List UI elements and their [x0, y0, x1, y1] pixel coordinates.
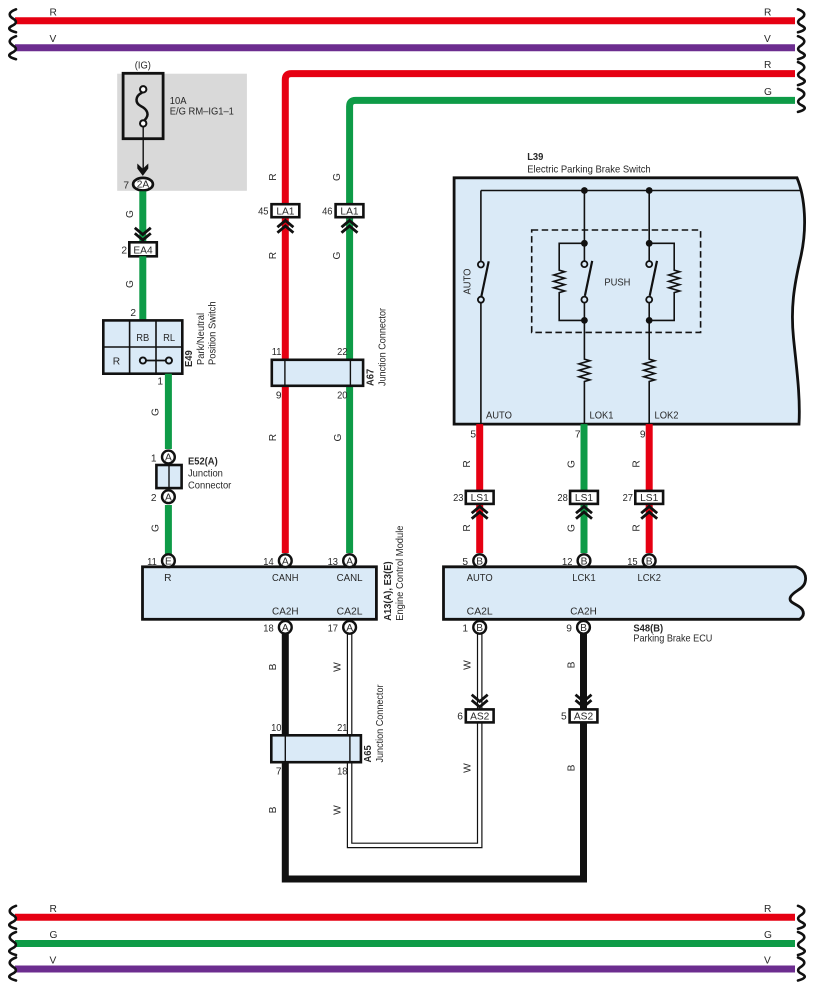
wire G feed to CANL (horizontal then down) — [350, 100, 795, 553]
svg-text:2: 2 — [130, 308, 136, 319]
svg-text:G: G — [333, 433, 344, 441]
arrow chevrons AS2 pin5 — [576, 695, 592, 707]
svg-text:CA2L: CA2L — [337, 607, 363, 618]
wire fuse output — [142, 127, 144, 171]
switch LOK2 contact — [646, 261, 652, 267]
svg-text:2A: 2A — [137, 180, 150, 191]
svg-text:PUSH: PUSH — [604, 278, 630, 289]
svg-text:A: A — [165, 492, 172, 503]
bus end squiggle top-right R — [798, 9, 805, 32]
wire bus R (bottom) — [15, 914, 795, 921]
svg-text:5: 5 — [561, 712, 567, 723]
svg-text:A67: A67 — [366, 369, 377, 386]
svg-text:10A: 10A — [170, 96, 187, 107]
wire R AUTO from L39 to ECU — [476, 424, 483, 553]
svg-text:7: 7 — [276, 767, 282, 778]
svg-text:6: 6 — [457, 712, 463, 723]
svg-text:B: B — [566, 661, 577, 668]
bus end squiggle top-left V — [9, 36, 16, 59]
svg-text:14: 14 — [263, 557, 274, 568]
wire bus R (top) — [15, 17, 795, 24]
svg-text:G: G — [764, 87, 772, 98]
fuse block background (IG relay block grey box) — [117, 74, 247, 191]
svg-text:G: G — [151, 524, 162, 532]
svg-text:A: A — [282, 623, 289, 634]
svg-text:RB: RB — [136, 333, 149, 344]
wire W CA2L loop (ECM 17 to ECU 1) black outline — [350, 630, 480, 845]
wire B CA2H loop (ECM 18 to ECU 9) — [285, 630, 583, 879]
wire R feed to CANH (horizontal then down) — [285, 74, 795, 553]
svg-text:Electric Parking Brake Switch: Electric Parking Brake Switch — [527, 165, 651, 176]
svg-text:CA2L: CA2L — [467, 607, 493, 618]
svg-text:9: 9 — [640, 430, 646, 441]
wire W CA2L loop white core — [350, 629, 480, 845]
svg-text:15: 15 — [627, 557, 638, 568]
svg-text:9: 9 — [276, 391, 282, 402]
E49 internal contacts — [146, 360, 166, 362]
svg-text:A65: A65 — [363, 745, 374, 762]
bus end squiggle top-left R — [9, 9, 16, 32]
svg-text:CANL: CANL — [337, 573, 363, 584]
svg-text:11: 11 — [272, 347, 282, 358]
dashed PUSH switch group box — [532, 230, 701, 332]
ECU A13(A) E3(E) Engine Control Module box — [143, 567, 377, 620]
svg-text:B: B — [476, 556, 483, 567]
svg-text:46: 46 — [322, 207, 333, 218]
svg-text:CA2H: CA2H — [570, 607, 597, 618]
bus end squiggle right G feed — [798, 89, 805, 112]
svg-text:R: R — [632, 460, 643, 467]
svg-text:R: R — [268, 252, 279, 259]
svg-text:LOK1: LOK1 — [590, 411, 614, 422]
svg-text:B: B — [268, 806, 279, 813]
svg-text:5: 5 — [470, 430, 476, 441]
svg-text:G: G — [332, 251, 343, 259]
wire AUTO branch — [480, 191, 482, 262]
svg-text:A13(A), E3(E): A13(A), E3(E) — [383, 561, 394, 620]
arrow into connector 2A — [137, 164, 148, 176]
svg-text:R: R — [764, 60, 771, 71]
svg-text:AUTO: AUTO — [462, 268, 473, 294]
svg-text:LA1: LA1 — [276, 206, 294, 217]
svg-text:AUTO: AUTO — [486, 411, 512, 422]
wire bus G (bottom) — [15, 940, 795, 947]
svg-text:LS1: LS1 — [575, 493, 593, 504]
svg-text:A: A — [282, 556, 289, 567]
svg-text:28: 28 — [557, 493, 568, 504]
svg-text:Junction Connector: Junction Connector — [375, 684, 386, 763]
arrow chevrons into EA4 — [135, 228, 151, 240]
svg-text:E/G RM–IG1–1: E/G RM–IG1–1 — [170, 107, 234, 118]
node dot top rail LOK2 — [646, 187, 653, 194]
svg-text:LOK2: LOK2 — [655, 411, 679, 422]
bus end squiggle bottom-right G — [798, 932, 805, 955]
wire internal top rail — [481, 190, 801, 192]
svg-text:R: R — [113, 357, 120, 368]
arrow chevrons LA1 46 — [342, 221, 358, 233]
resistor LOK2 series — [644, 320, 655, 424]
svg-text:AS2: AS2 — [574, 712, 594, 723]
wire bus V (bottom) — [15, 966, 795, 973]
arrow chevrons LA1 45 — [277, 221, 293, 233]
bus end squiggle top-right V — [798, 36, 805, 59]
wire LOK1 branch top — [583, 191, 585, 262]
ECU S48(B) Parking Brake ECU box — [444, 567, 806, 620]
switch AUTO contact — [478, 262, 484, 268]
node dot LOK1 lower — [581, 317, 588, 324]
label E49 — [184, 301, 219, 367]
svg-text:B: B — [268, 663, 279, 670]
svg-text:G: G — [567, 460, 578, 468]
wire G from 2A to EA4 — [139, 191, 146, 242]
switch LOK1 contact — [581, 261, 587, 267]
svg-text:A: A — [346, 623, 353, 634]
svg-text:B: B — [580, 623, 587, 634]
svg-text:B: B — [581, 556, 588, 567]
svg-text:R: R — [268, 173, 279, 180]
svg-text:R: R — [764, 7, 771, 18]
svg-text:L39: L39 — [527, 152, 544, 163]
svg-text:V: V — [50, 956, 57, 967]
arrow chevrons AS2 pin6 — [472, 695, 488, 707]
svg-text:RL: RL — [163, 333, 175, 344]
svg-text:AS2: AS2 — [470, 712, 490, 723]
svg-text:LCK1: LCK1 — [572, 573, 596, 584]
svg-text:W: W — [333, 805, 344, 815]
svg-text:2: 2 — [151, 493, 157, 504]
svg-text:G: G — [151, 408, 162, 416]
bus end squiggle bottom-right R — [798, 906, 805, 929]
svg-text:S48(B): S48(B) — [633, 623, 663, 634]
svg-text:18: 18 — [337, 767, 348, 778]
svg-text:R: R — [462, 460, 473, 467]
switch E49 Park/Neutral Position Switch — [103, 320, 182, 373]
svg-text:2: 2 — [121, 246, 127, 257]
bus end squiggle bottom-left G — [9, 932, 16, 955]
resistor LOK1 parallel — [554, 243, 585, 320]
svg-text:G: G — [764, 930, 772, 941]
svg-text:G: G — [50, 930, 58, 941]
svg-text:V: V — [764, 34, 771, 45]
svg-text:10: 10 — [271, 723, 282, 734]
svg-text:R: R — [164, 573, 171, 584]
svg-text:7: 7 — [575, 430, 581, 441]
svg-text:G: G — [332, 173, 343, 181]
svg-text:Position Switch: Position Switch — [208, 301, 219, 365]
connector EA4 — [129, 242, 157, 256]
svg-text:V: V — [50, 34, 57, 45]
svg-text:23: 23 — [453, 493, 464, 504]
node dot top rail LOK1 — [581, 187, 588, 194]
svg-text:1: 1 — [151, 454, 157, 465]
node dot LOK1 upper — [581, 240, 588, 247]
svg-text:(IG): (IG) — [135, 61, 151, 72]
svg-text:7: 7 — [123, 180, 129, 191]
svg-text:G: G — [567, 524, 578, 532]
svg-text:11: 11 — [147, 557, 157, 568]
svg-text:W: W — [463, 660, 474, 670]
svg-text:18: 18 — [263, 624, 274, 635]
svg-text:LS1: LS1 — [471, 493, 489, 504]
svg-text:B: B — [476, 623, 483, 634]
svg-text:G: G — [125, 280, 136, 288]
bus end squiggle right R feed — [798, 62, 805, 85]
svg-text:W: W — [333, 662, 344, 672]
node dot LOK2 upper — [646, 240, 653, 247]
bus end squiggle bottom-left V — [9, 958, 16, 981]
svg-text:A: A — [165, 453, 172, 464]
bus end squiggle bottom-right V — [798, 958, 805, 981]
svg-text:LCK2: LCK2 — [638, 573, 662, 584]
svg-text:45: 45 — [258, 207, 269, 218]
svg-text:CA2H: CA2H — [272, 607, 299, 618]
svg-text:B: B — [566, 764, 577, 771]
svg-text:Engine Control Module: Engine Control Module — [395, 525, 406, 621]
wire R LOK2 from L39 to ECU — [646, 424, 653, 553]
svg-text:B: B — [646, 556, 653, 567]
svg-text:R: R — [50, 7, 57, 18]
node dot LOK2 lower — [646, 317, 653, 324]
wire LOK2 branch top — [648, 191, 650, 262]
svg-text:AUTO: AUTO — [467, 573, 493, 584]
svg-text:CANH: CANH — [272, 573, 299, 584]
svg-text:W: W — [463, 763, 474, 773]
svg-text:LA1: LA1 — [340, 206, 358, 217]
svg-text:A: A — [346, 556, 353, 567]
wire G LOK1 from L39 to ECU — [581, 424, 588, 553]
resistor LOK2 parallel — [649, 243, 680, 320]
svg-text:Parking Brake ECU: Parking Brake ECU — [633, 634, 712, 645]
svg-text:R: R — [462, 524, 473, 531]
wire bus V (top) — [15, 44, 795, 51]
svg-text:13: 13 — [328, 557, 339, 568]
svg-text:22: 22 — [337, 347, 348, 358]
connector oval 2A — [133, 178, 153, 191]
svg-text:9: 9 — [566, 624, 572, 635]
fuse 10A E/G RM-IG1-1 — [123, 73, 163, 138]
svg-text:G: G — [125, 210, 136, 218]
svg-text:R: R — [632, 524, 643, 531]
svg-text:Junction: Junction — [188, 469, 223, 480]
svg-text:5: 5 — [462, 557, 468, 568]
svg-text:20: 20 — [337, 391, 348, 402]
wire G from EA4 to E49 — [139, 256, 146, 320]
svg-text:21: 21 — [337, 723, 348, 734]
svg-text:Park/Neutral: Park/Neutral — [196, 313, 207, 365]
svg-text:R: R — [764, 904, 771, 915]
resistor LOK1 series — [579, 320, 590, 424]
svg-text:R: R — [50, 904, 57, 915]
svg-text:Junction Connector: Junction Connector — [378, 307, 389, 386]
svg-text:1: 1 — [157, 377, 163, 388]
label A13(A), E3(E) Engine Control Module — [383, 525, 406, 621]
wire G from E49 to E52 — [165, 374, 172, 449]
svg-text:E49: E49 — [184, 350, 195, 367]
svg-text:E52(A): E52(A) — [188, 457, 218, 468]
svg-text:R: R — [268, 434, 279, 441]
svg-text:1: 1 — [462, 624, 468, 635]
svg-text:27: 27 — [623, 493, 634, 504]
svg-text:E: E — [165, 556, 172, 567]
svg-text:12: 12 — [562, 557, 573, 568]
svg-text:V: V — [764, 956, 771, 967]
bus end squiggle bottom-left R — [9, 906, 16, 929]
wire G from E52 to ECM pin 11 — [165, 505, 172, 556]
svg-text:EA4: EA4 — [133, 245, 153, 256]
svg-text:LS1: LS1 — [640, 493, 658, 504]
svg-text:Connector: Connector — [188, 481, 232, 492]
svg-text:17: 17 — [328, 624, 339, 635]
